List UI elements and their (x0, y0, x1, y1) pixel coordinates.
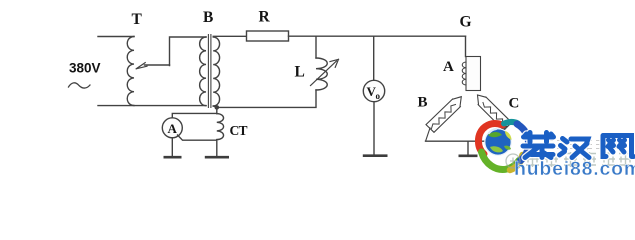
bus bar under samples (426, 140, 491, 142)
wire source top 380V to T (98, 36, 134, 38)
wire ammeter top to CT (172, 113, 217, 117)
svg-text:G: G (460, 14, 472, 31)
svg-text:CT: CT (230, 123, 248, 138)
ground under V0 (363, 154, 388, 157)
inductor L winding (316, 58, 327, 90)
main top wire R to G corner (289, 35, 466, 37)
wire source bottom to B primary bottom (98, 105, 206, 107)
watermark big text CHU HAN WANG (523, 133, 634, 158)
transformer B primary winding (200, 37, 206, 106)
ground stem of bus (467, 141, 469, 154)
ground under ammeter (164, 138, 182, 157)
V0 branch wire (373, 36, 375, 80)
autotransformer T winding (127, 37, 134, 106)
ammeter A (162, 118, 182, 138)
sample C tilted box (478, 95, 512, 141)
wire top to L (315, 36, 317, 58)
protective resistor A (462, 57, 480, 91)
wire G corner to sample lead A (465, 36, 467, 56)
svg-text:A: A (168, 121, 178, 136)
variable inductor arrow (311, 59, 339, 85)
watermark faint gray caption row1 (544, 140, 618, 150)
wiper arrow of T (136, 63, 169, 69)
transformer B core (208, 35, 211, 108)
watermark gray circled glyph (506, 154, 520, 168)
wire L bottom to junction (217, 90, 316, 107)
svg-text:T: T (132, 11, 143, 28)
wire wiper to B primary top (170, 37, 207, 66)
voltmeter V0 (363, 80, 384, 101)
svg-text:hubei88.com: hubei88.com (514, 158, 635, 178)
svg-text:R: R (259, 9, 271, 26)
ground bar of bus (459, 155, 478, 158)
sample B tilted box (426, 97, 462, 141)
svg-text:A: A (443, 59, 454, 75)
svg-text:L: L (295, 64, 305, 81)
wire ammeter bottom to CT (178, 135, 217, 140)
transformer B secondary winding (213, 37, 219, 106)
wire V0 to ground (373, 102, 375, 155)
CT conductor lower (216, 140, 218, 156)
watermark big text halo (523, 133, 634, 158)
wire secondary top to R (213, 35, 246, 37)
svg-text:380V: 380V (69, 61, 101, 76)
svg-text:C: C (509, 96, 520, 112)
CT conductor upper (216, 107, 218, 113)
resistor R (247, 31, 289, 41)
watermark swirl logo (478, 122, 528, 170)
source AC tilde (69, 83, 91, 88)
watermark faint gray caption row2 (526, 152, 632, 167)
svg-text:B: B (203, 9, 213, 26)
junction dot (213, 105, 219, 110)
svg-text:o: o (376, 91, 381, 101)
svg-text:B: B (418, 95, 428, 111)
CT winding (217, 114, 224, 140)
ground under CT (205, 156, 229, 159)
